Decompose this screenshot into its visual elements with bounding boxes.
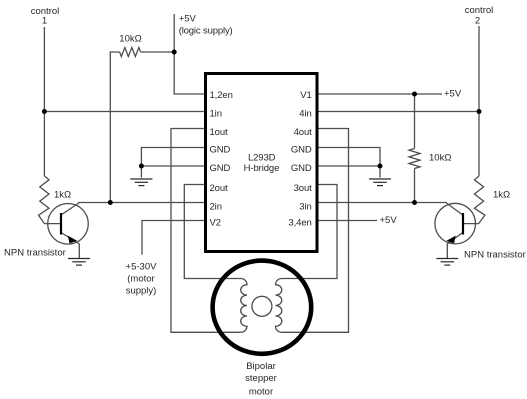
svg-text:V2: V2 — [210, 217, 221, 228]
svg-text:+5V: +5V — [179, 14, 197, 25]
svg-text:1in: 1in — [210, 108, 222, 119]
svg-text:3out: 3out — [294, 183, 313, 194]
svg-text:+5V: +5V — [444, 88, 462, 99]
svg-text:10kΩ: 10kΩ — [119, 34, 141, 45]
svg-text:4out: 4out — [294, 127, 313, 138]
svg-text:motor: motor — [249, 386, 273, 397]
svg-text:3,4en: 3,4en — [288, 217, 311, 228]
svg-text:NPN transistor: NPN transistor — [464, 250, 526, 261]
svg-text:4in: 4in — [299, 108, 311, 119]
svg-text:(logic supply): (logic supply) — [179, 26, 233, 37]
svg-text:GND: GND — [210, 163, 231, 174]
svg-text:Bipolar: Bipolar — [246, 361, 276, 372]
svg-text:1: 1 — [42, 16, 47, 27]
svg-text:GND: GND — [291, 163, 312, 174]
svg-text:+5-30V: +5-30V — [126, 262, 158, 273]
svg-text:3in: 3in — [299, 201, 311, 212]
svg-text:NPN transistor: NPN transistor — [4, 248, 66, 259]
svg-text:GND: GND — [291, 145, 312, 156]
svg-text:1kΩ: 1kΩ — [54, 190, 71, 201]
svg-text:control: control — [465, 5, 494, 16]
svg-text:2in: 2in — [210, 201, 222, 212]
svg-text:L293D: L293D — [248, 153, 276, 164]
svg-text:1kΩ: 1kΩ — [493, 190, 510, 201]
svg-text:H-bridge: H-bridge — [244, 163, 280, 174]
svg-text:(motor: (motor — [127, 274, 154, 285]
svg-text:10kΩ: 10kΩ — [429, 153, 451, 164]
svg-text:V1: V1 — [300, 90, 311, 101]
svg-text:1out: 1out — [210, 127, 229, 138]
svg-text:+5V: +5V — [380, 215, 398, 226]
svg-text:supply): supply) — [126, 285, 157, 296]
svg-text:GND: GND — [210, 145, 231, 156]
svg-text:2out: 2out — [210, 183, 229, 194]
svg-text:2: 2 — [475, 16, 480, 27]
svg-text:stepper: stepper — [245, 373, 277, 384]
svg-text:1,2en: 1,2en — [210, 90, 233, 101]
